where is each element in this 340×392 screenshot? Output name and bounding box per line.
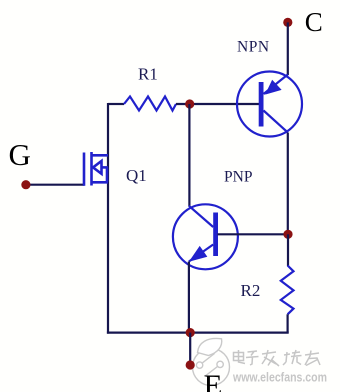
- watermark chinese text 电子发烧友: [234, 350, 321, 366]
- wire PNP emitter down: [188, 262, 190, 334]
- wire collector lead C: [287, 22, 289, 75]
- svg-text:G: G: [9, 137, 31, 172]
- svg-text:Q1: Q1: [126, 166, 147, 185]
- svg-text:www.elecfans.com: www.elecfans.com: [232, 370, 327, 385]
- wire NPN emitter to junction: [287, 133, 289, 235]
- resistor R1: [124, 97, 176, 111]
- watermark logo: [193, 338, 230, 385]
- transistor PNP: [173, 204, 238, 269]
- terminal dot C: [283, 18, 292, 27]
- terminal dot E: [186, 360, 195, 369]
- wire R2 bottom lead: [287, 314, 289, 332]
- wire top rail right segment: [176, 103, 259, 105]
- resistor R2: [281, 266, 294, 315]
- junction node at R1/base: [185, 99, 194, 108]
- svg-text:NPN: NPN: [237, 39, 270, 56]
- svg-text:C: C: [305, 7, 323, 37]
- junction node base/emitter/R2: [283, 230, 292, 239]
- svg-text:R1: R1: [138, 65, 158, 84]
- wire gate lead: [26, 184, 84, 186]
- wire emitter terminal lead: [189, 333, 191, 365]
- svg-text:PNP: PNP: [224, 169, 252, 186]
- junction node bottom rail: [186, 328, 195, 337]
- wire R2 top lead: [287, 234, 289, 266]
- svg-text:E: E: [204, 368, 223, 392]
- wire bottom rail: [107, 332, 289, 334]
- terminal dot G: [21, 180, 30, 189]
- wire top rail left segment: [108, 103, 124, 105]
- mosfet Q1: [84, 152, 108, 186]
- wire junction to PNP collector: [188, 104, 190, 206]
- wire PNP base lead: [218, 233, 289, 235]
- svg-text:R2: R2: [241, 281, 261, 300]
- wire left trunk vertical: [107, 103, 109, 334]
- transistor NPN: [237, 72, 302, 137]
